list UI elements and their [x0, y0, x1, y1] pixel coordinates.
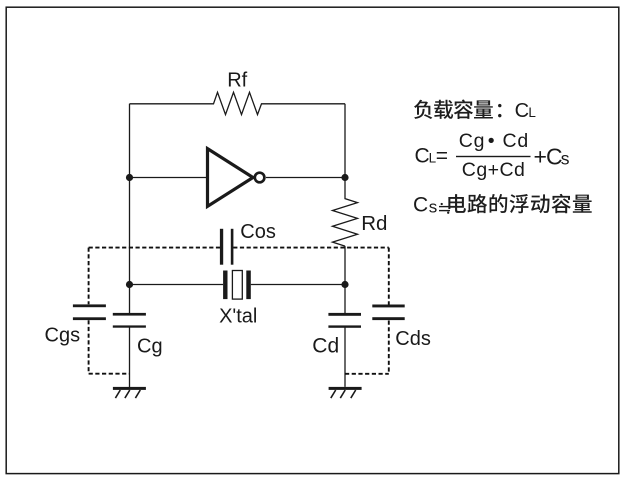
svg-text:Cg: Cg — [459, 130, 486, 152]
svg-text:Cd: Cd — [312, 335, 339, 358]
svg-text:Cd: Cd — [503, 130, 530, 152]
svg-text:•: • — [488, 130, 495, 152]
svg-text:Cg: Cg — [137, 336, 163, 358]
svg-text:Rd: Rd — [361, 212, 387, 235]
svg-text:=: = — [436, 145, 448, 168]
svg-text:s: s — [429, 197, 438, 216]
svg-text:Rf: Rf — [227, 69, 247, 91]
svg-text:Cds: Cds — [395, 328, 431, 350]
svg-text:Cg+Cd: Cg+Cd — [462, 159, 526, 181]
svg-text:X'tal: X'tal — [219, 306, 257, 328]
svg-text:s: s — [561, 148, 570, 168]
svg-text:Cos: Cos — [240, 221, 276, 243]
svg-text:Cgs: Cgs — [45, 325, 81, 347]
svg-text:C: C — [515, 100, 529, 122]
svg-text:C: C — [413, 194, 428, 217]
svg-text:C: C — [415, 145, 430, 168]
svg-text:L: L — [528, 105, 536, 120]
svg-text:+: + — [534, 144, 547, 170]
